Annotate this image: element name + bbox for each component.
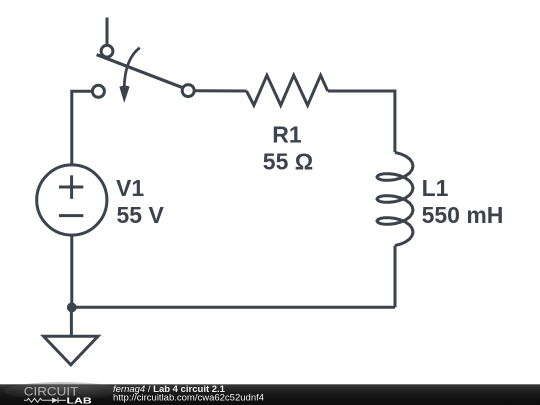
switch SW1 top terminal stub bbox=[106, 18, 109, 46]
svg-text:55 Ω: 55 Ω bbox=[263, 149, 313, 175]
svg-text:LAB: LAB bbox=[67, 397, 92, 405]
switch SW1 right terminal circle bbox=[182, 85, 194, 97]
bottom rail wire bbox=[72, 306, 395, 309]
svg-text:R1: R1 bbox=[272, 122, 302, 148]
switch SW1 actuation arrow arc bbox=[124, 48, 140, 87]
resistor R1 zigzag bbox=[247, 75, 328, 105]
svg-text:http://circuitlab.com/cwa62c52: http://circuitlab.com/cwa62c52udnf4 bbox=[113, 393, 264, 404]
wire: V1 bottom to bottom rail bbox=[70, 235, 73, 307]
wire: switch right terminal to resistor bbox=[193, 89, 247, 92]
svg-text:V1: V1 bbox=[116, 175, 144, 201]
switch SW1 top terminal circle bbox=[101, 45, 113, 57]
V1 plus sign bbox=[59, 186, 83, 189]
inductor L1 coil bbox=[377, 152, 413, 245]
node junction dot bbox=[67, 303, 77, 313]
switch SW1 left terminal circle bbox=[92, 85, 104, 97]
wire: inductor bottom to bottom rail bbox=[394, 246, 397, 308]
voltage source V1 circle bbox=[37, 165, 107, 235]
svg-text:550 mH: 550 mH bbox=[422, 202, 504, 228]
svg-text:L1: L1 bbox=[422, 175, 449, 201]
V1 minus sign bbox=[59, 214, 83, 217]
ground symbol triangle bbox=[44, 336, 99, 365]
switch SW1 arrowhead bbox=[119, 86, 129, 103]
switch SW1 blade bbox=[97, 55, 184, 88]
logo glow highlight bbox=[4, 382, 120, 400]
wire: switch left terminal to left rail corner and down to V1 bbox=[72, 91, 94, 165]
logo doodle: resistor zigzag and diode bbox=[24, 398, 66, 404]
wire: resistor to right rail corner, down to inductor bbox=[328, 91, 395, 152]
ground stub wire bbox=[70, 307, 73, 336]
svg-text:55 V: 55 V bbox=[117, 202, 165, 228]
